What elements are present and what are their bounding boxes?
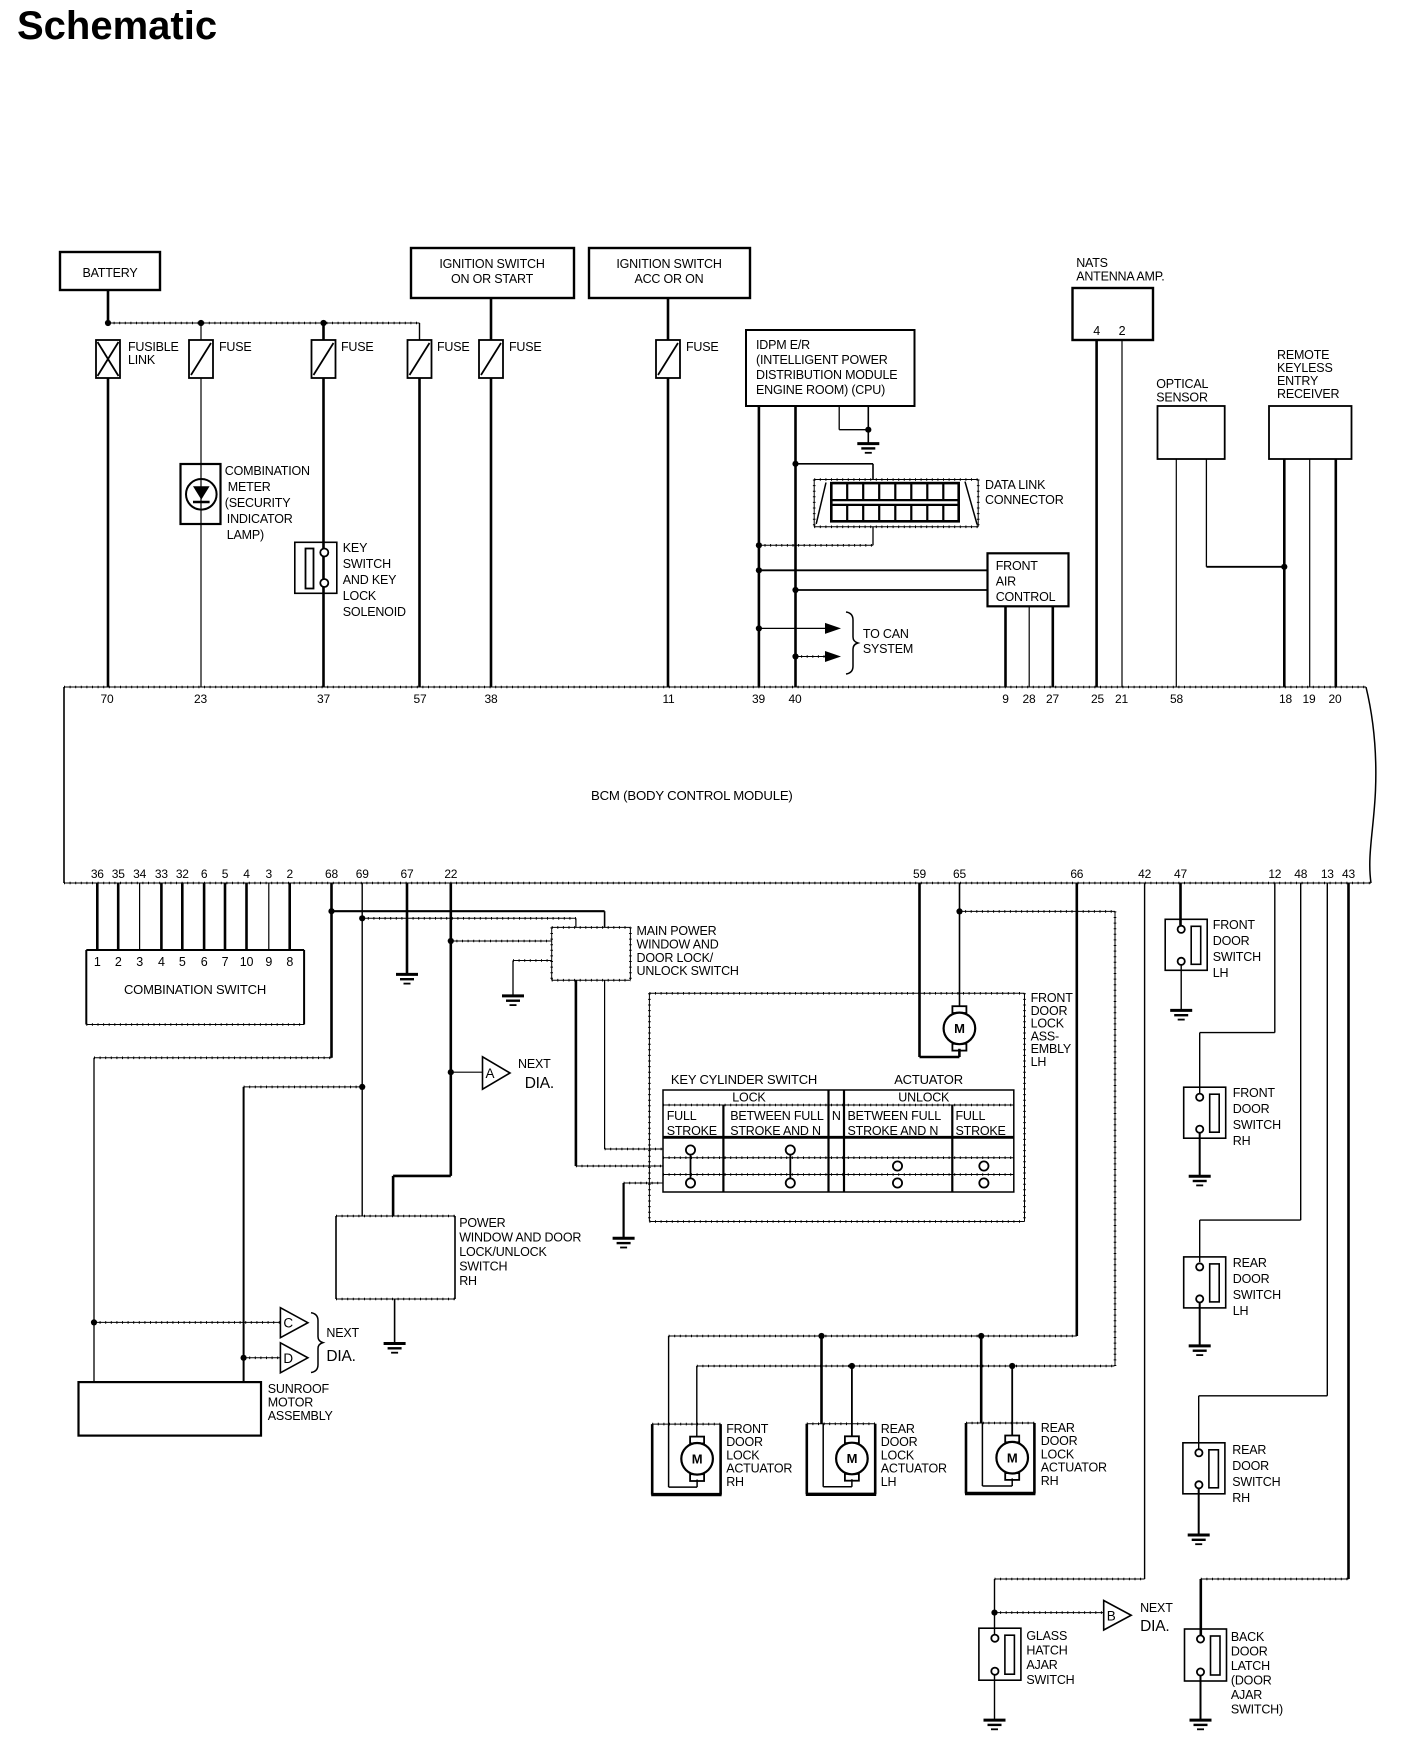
svg-text:STROKE AND N: STROKE AND N: [730, 1124, 821, 1138]
svg-text:DIA.: DIA.: [525, 1075, 554, 1092]
junction triangle C: [91, 1319, 97, 1325]
svg-text:67: 67: [401, 867, 414, 881]
wire F4 to BCM pin 38: [490, 378, 493, 687]
svg-text:43: 43: [1342, 867, 1355, 881]
wire BCM pin 33 to combination switch pin 4: [160, 883, 163, 950]
key cylinder switch table: [663, 1090, 1014, 1192]
svg-text:LATCH: LATCH: [1231, 1659, 1270, 1673]
optical sensor: [1158, 406, 1225, 459]
label BACK DOOR LATCH (DOOR AJAR SWITCH): [1231, 1630, 1283, 1717]
svg-text:AIR: AIR: [996, 575, 1016, 589]
svg-text:C: C: [283, 1316, 293, 1331]
wire BCM pin 6 to combination switch pin 6: [203, 883, 206, 950]
rear door lock actuator LH: [806, 1424, 876, 1495]
wire glass hatch to ground: [994, 1675, 996, 1720]
svg-text:34: 34: [133, 867, 146, 881]
label GLASS HATCH AJAR SWITCH: [1026, 1629, 1074, 1687]
front door lock actuator RH: [651, 1424, 721, 1495]
svg-text:BCM (BODY CONTROL MODULE): BCM (BODY CONTROL MODULE): [591, 788, 793, 803]
wire F5 to BCM pin 11: [667, 378, 670, 687]
junction triangle A: [448, 1069, 454, 1075]
BCM bottom pin 35 label: [112, 867, 125, 881]
wire IDPM to BCM pin 40: [794, 406, 797, 687]
wire optical sensor to BCM pin 58: [1175, 459, 1177, 687]
svg-text:42: 42: [1138, 867, 1151, 881]
svg-text:SWITCH: SWITCH: [1233, 1288, 1281, 1302]
svg-text:REAR: REAR: [1233, 1256, 1267, 1270]
svg-text:FRONT: FRONT: [1213, 918, 1256, 932]
svg-text:LH: LH: [881, 1475, 897, 1489]
junction pin40 front air: [792, 587, 798, 593]
svg-text:SWITCH: SWITCH: [343, 557, 391, 571]
svg-text:SWITCH: SWITCH: [1213, 950, 1261, 964]
svg-text:59: 59: [913, 867, 926, 881]
svg-text:SWITCH): SWITCH): [1231, 1703, 1283, 1717]
svg-text:METER: METER: [228, 480, 271, 494]
fuse F5: [656, 340, 680, 378]
BCM bottom pin 66 label: [1070, 867, 1083, 881]
BCM bottom pin 32 label: [176, 867, 189, 881]
wire BCM pin 4 to combination switch pin 10: [245, 883, 248, 950]
svg-text:KEY CYLINDER SWITCH: KEY CYLINDER SWITCH: [671, 1072, 817, 1087]
svg-text:Schematic: Schematic: [17, 4, 217, 48]
svg-text:IGNITION SWITCH: IGNITION SWITCH: [616, 257, 721, 271]
svg-text:ACTUATOR: ACTUATOR: [1041, 1461, 1107, 1475]
svg-text:KEY: KEY: [343, 541, 368, 555]
svg-text:SWITCH: SWITCH: [1233, 1118, 1281, 1132]
wire IDPM to BCM pin 39: [758, 406, 761, 687]
junction IDPM ground: [865, 427, 871, 433]
wire ignition start to fuse F4: [490, 298, 493, 340]
svg-text:FUSIBLE: FUSIBLE: [128, 340, 179, 354]
wire ignition acc to fuse F5: [667, 298, 670, 340]
BCM bottom pin 68 label: [325, 867, 338, 881]
wire BCM pin 65 to lock motor LH: [959, 883, 961, 1006]
BCM bottom pin 6 label: [201, 867, 208, 881]
svg-text:DOOR: DOOR: [1232, 1459, 1269, 1473]
svg-text:AND KEY: AND KEY: [343, 573, 397, 587]
junction pin 65 branch: [956, 908, 962, 914]
wire rear door switch LH to ground: [1199, 1303, 1201, 1346]
wire NATS 2 to BCM pin 21: [1121, 340, 1123, 687]
junction unlock bus rear LH: [849, 1363, 855, 1369]
svg-text:FUSE: FUSE: [219, 340, 252, 354]
svg-text:35: 35: [112, 867, 125, 881]
svg-text:UNLOCK: UNLOCK: [898, 1091, 950, 1105]
NATS pin 2 label: [1119, 324, 1126, 338]
wire pin 68 elbow to sunroof feed: [94, 1058, 332, 1323]
label ACTUATOR: [894, 1072, 963, 1087]
wire main power switch to key cylinder row B: [576, 980, 663, 1166]
svg-text:68: 68: [325, 867, 338, 881]
label KEY CYLINDER SWITCH: [671, 1072, 817, 1087]
BCM bottom pin 43 label: [1342, 867, 1355, 881]
svg-text:OPTICAL: OPTICAL: [1156, 377, 1208, 391]
wire BCM pin 68 down: [330, 883, 333, 1058]
label NEXT DIA for A: [518, 1057, 554, 1092]
svg-text:SWITCH: SWITCH: [1026, 1673, 1074, 1687]
fusible link FL: [96, 340, 120, 378]
svg-text:69: 69: [356, 867, 369, 881]
label BCM (BODY CONTROL MODULE): [591, 788, 793, 803]
label REAR DOOR LOCK ACTUATOR RH: [1041, 1421, 1107, 1488]
svg-text:21: 21: [1115, 692, 1128, 706]
wire CAN low arrow: [796, 651, 842, 662]
label N: [832, 1109, 841, 1123]
combination switch pin 5 label: [179, 955, 186, 969]
wire BCM pin 13 to rear door switch RH: [1199, 883, 1328, 1449]
svg-text:DOOR: DOOR: [1231, 1645, 1268, 1659]
main power window and door lock/unlock switch: [552, 927, 631, 980]
svg-text:M: M: [954, 1021, 965, 1036]
svg-text:3: 3: [136, 955, 143, 969]
BCM top pin 27 label: [1046, 692, 1059, 706]
wire unlock bus to front actuator motor: [696, 1366, 698, 1436]
svg-text:FUSE: FUSE: [341, 340, 374, 354]
ignition switch ACC OR ON: [589, 248, 750, 298]
front door switch RH: [1184, 1087, 1226, 1138]
svg-text:(DOOR: (DOOR: [1231, 1674, 1272, 1688]
wire front door switch RH to ground: [1199, 1133, 1201, 1176]
BCM top pin 23 label: [194, 692, 207, 706]
BCM top pin 21 label: [1115, 692, 1128, 706]
wire front air to BCM pin 28: [1028, 606, 1030, 687]
combination switch pin 4 label: [158, 955, 165, 969]
NATS pin 4 label: [1093, 324, 1100, 338]
svg-text:DOOR: DOOR: [1041, 1434, 1078, 1448]
wire pin 69 branch to triangle D: [244, 1087, 363, 1358]
svg-text:ANTENNA AMP.: ANTENNA AMP.: [1076, 270, 1164, 284]
wire BCM pin 66 down: [1076, 883, 1079, 1336]
label FRONT DOOR LOCK ACTUATOR RH: [726, 1422, 792, 1489]
contact unlock between row B: [893, 1161, 902, 1170]
wire lock bus to rear actuator RH: [980, 1336, 983, 1423]
label FUSIBLE LINK: [128, 340, 179, 367]
svg-text:DISTRIBUTION MODULE: DISTRIBUTION MODULE: [756, 368, 897, 382]
wire lock contact bridge 2: [789, 1155, 791, 1179]
svg-text:4: 4: [1093, 324, 1100, 338]
label FUSE F2: [341, 340, 374, 354]
svg-text:19: 19: [1303, 692, 1316, 706]
svg-text:7: 7: [222, 955, 229, 969]
BCM top pin 25 label: [1091, 692, 1104, 706]
wire BCM pin 36 to combination switch pin 1: [96, 883, 99, 950]
svg-text:LOCK: LOCK: [343, 589, 377, 603]
label LOCK: [732, 1091, 766, 1105]
svg-text:22: 22: [444, 867, 457, 881]
wire BCM pin 22 down: [393, 883, 451, 1216]
label DATA LINK CONNECTOR: [985, 478, 1064, 507]
wire pin 65 branch to unlock bus: [960, 911, 1116, 1366]
svg-text:SUNROOF: SUNROOF: [268, 1382, 330, 1396]
svg-text:18: 18: [1279, 692, 1292, 706]
svg-text:D: D: [283, 1351, 293, 1366]
rear door lock actuator RH: [965, 1423, 1035, 1494]
ground G1 IDPM: [857, 444, 879, 453]
junction CAN high: [756, 625, 762, 631]
BCM bottom pin 65 label: [953, 867, 966, 881]
svg-text:LOCK: LOCK: [732, 1091, 766, 1105]
svg-text:32: 32: [176, 867, 189, 881]
svg-text:1: 1: [94, 955, 101, 969]
svg-text:4: 4: [243, 867, 250, 881]
wire key cylinder row C to ground: [624, 1183, 663, 1238]
wire NATS 4 to BCM pin 25: [1095, 340, 1098, 687]
front air control module: [988, 553, 1069, 606]
BCM bottom pin 69 label: [356, 867, 369, 881]
wire to triangle A: [451, 1071, 483, 1073]
junction lock bus rear RH: [978, 1333, 984, 1339]
wire BCM pin 34 to combination switch pin 3: [139, 883, 141, 950]
svg-text:12: 12: [1268, 867, 1281, 881]
junction pin 68 branch: [328, 908, 334, 914]
combination switch pin 2 label: [115, 955, 122, 969]
junction battery bus at fusible link: [105, 320, 111, 326]
wire lock bus to front actuator: [668, 1336, 670, 1424]
BCM bottom pin 12 label: [1268, 867, 1281, 881]
svg-text:SOLENOID: SOLENOID: [343, 605, 406, 619]
wire front door switch LH to ground: [1180, 965, 1182, 1010]
wire bus stub F1: [200, 323, 202, 340]
svg-text:BATTERY: BATTERY: [82, 266, 138, 280]
svg-text:10: 10: [240, 955, 254, 969]
svg-text:25: 25: [1091, 692, 1104, 706]
svg-text:NEXT: NEXT: [518, 1057, 551, 1071]
svg-text:M: M: [847, 1451, 858, 1466]
wire BCM pin 69 down: [361, 883, 363, 1216]
svg-text:FRONT: FRONT: [1233, 1086, 1276, 1100]
svg-text:BETWEEN FULL: BETWEEN FULL: [848, 1109, 942, 1123]
ignition switch ON OR START: [411, 248, 574, 298]
label FUSE F3: [437, 340, 470, 354]
wire actuator unlock bus: [697, 1365, 1115, 1367]
junction pin 69 upper: [359, 915, 365, 921]
svg-text:39: 39: [752, 692, 765, 706]
svg-text:MOTOR: MOTOR: [268, 1396, 313, 1410]
wire optical sensor to keyless join: [1206, 459, 1284, 567]
glass hatch ajar switch: [979, 1628, 1021, 1680]
wire keyless to BCM pin 20: [1335, 459, 1338, 687]
label FUSE F5: [686, 340, 719, 354]
label FUSE F1: [219, 340, 252, 354]
junction bus fuse F2: [320, 320, 326, 326]
wire pin 69 to main power window switch: [362, 918, 576, 927]
svg-text:DIA.: DIA.: [326, 1348, 355, 1365]
BCM top pin 11 label: [662, 692, 675, 706]
svg-text:37: 37: [317, 692, 330, 706]
svg-text:BETWEEN FULL: BETWEEN FULL: [730, 1109, 824, 1123]
svg-text:48: 48: [1294, 867, 1307, 881]
svg-text:AJAR: AJAR: [1026, 1658, 1057, 1672]
svg-text:40: 40: [789, 692, 802, 706]
svg-text:3: 3: [266, 867, 273, 881]
brace TO CAN SYSTEM: [846, 612, 858, 674]
power window and door lock/unlock switch RH: [336, 1216, 455, 1299]
label NEXT DIA for B: [1140, 1601, 1173, 1635]
junction pin39 front air: [756, 567, 762, 573]
wire to triangle C: [94, 1321, 280, 1323]
label REAR DOOR LOCK ACTUATOR LH: [881, 1422, 947, 1489]
svg-text:LOCK/UNLOCK: LOCK/UNLOCK: [459, 1245, 547, 1259]
svg-text:11: 11: [662, 692, 675, 706]
contact unlock full-stroke row C: [979, 1178, 988, 1187]
front door lock assembly LH enclosure: [649, 993, 1024, 1221]
svg-text:DOOR: DOOR: [726, 1435, 763, 1449]
svg-text:58: 58: [1170, 692, 1183, 706]
junction lock bus rear LH: [818, 1333, 824, 1339]
label BETWEEN FULL STROKE AND N unlock: [848, 1109, 942, 1138]
BCM top pin 58 label: [1170, 692, 1183, 706]
svg-text:LAMP): LAMP): [227, 528, 264, 542]
BCM bottom pin 42 label: [1138, 867, 1151, 881]
svg-text:IGNITION SWITCH: IGNITION SWITCH: [439, 257, 544, 271]
svg-text:RH: RH: [1232, 1491, 1250, 1505]
svg-text:RH: RH: [726, 1475, 744, 1489]
label TO CAN SYSTEM: [863, 627, 913, 656]
svg-text:ACTUATOR: ACTUATOR: [881, 1462, 947, 1476]
junction optical keyless: [1281, 564, 1287, 570]
BCM top pin 19 label: [1303, 692, 1316, 706]
contact lock full-stroke row A: [686, 1145, 695, 1154]
triangle C next dia: [280, 1308, 308, 1338]
svg-text:REMOTE: REMOTE: [1277, 348, 1329, 362]
rear door switch RH: [1183, 1443, 1225, 1494]
svg-text:REAR: REAR: [881, 1422, 915, 1436]
BCM bottom pin 33 label: [155, 867, 168, 881]
svg-text:FUSE: FUSE: [509, 340, 542, 354]
svg-text:LH: LH: [1031, 1055, 1047, 1069]
svg-text:4: 4: [158, 955, 165, 969]
ground G7 front door switch RH: [1189, 1176, 1211, 1185]
wire junction to sunroof pin2: [243, 1358, 245, 1382]
fuse F3: [408, 340, 432, 378]
BCM bottom pin 59 label: [913, 867, 926, 881]
wire BCM pin 32 to combination switch pin 5: [181, 883, 184, 950]
wire BCM pin 48 to rear door switch LH: [1200, 883, 1301, 1262]
wire pin40 to data link connector: [796, 464, 874, 480]
triangle A next dia: [483, 1057, 511, 1089]
wire pin40 to front air control: [796, 589, 988, 591]
BCM body control module: [64, 687, 1376, 883]
fuse F2: [312, 340, 336, 378]
BCM top pin 18 label: [1279, 692, 1292, 706]
svg-text:RH: RH: [1233, 1134, 1251, 1148]
BCM bottom pin 22 label: [444, 867, 457, 881]
door lock motor M1 LH: [944, 1006, 976, 1050]
contact unlock between row C: [893, 1178, 902, 1187]
label NATS ANTENNA AMP.: [1076, 256, 1164, 284]
wire BCM pin 47 to front door switch LH: [1179, 883, 1182, 925]
data link connector J1: [814, 480, 978, 527]
combination switch pin 1 label: [94, 955, 101, 969]
wire BCM pin 35 to combination switch pin 2: [117, 883, 120, 950]
svg-text:36: 36: [91, 867, 104, 881]
svg-text:(SECURITY: (SECURITY: [225, 496, 291, 510]
svg-text:N: N: [832, 1109, 841, 1123]
wire BCM pin 3 to combination switch pin 9: [268, 883, 270, 950]
battery B1: [60, 252, 160, 290]
combination switch pin 3 label: [136, 955, 143, 969]
wire F2 to BCM pin 37: [322, 378, 325, 687]
svg-text:57: 57: [414, 692, 427, 706]
svg-text:ENTRY: ENTRY: [1277, 374, 1319, 388]
svg-text:AJAR: AJAR: [1231, 1688, 1262, 1702]
svg-text:LOCK: LOCK: [1041, 1447, 1075, 1461]
wire BCM pin 42 to glass hatch switch: [995, 883, 1145, 1635]
svg-text:ASSEMBLY: ASSEMBLY: [268, 1409, 334, 1423]
wire BCM pin 12 to front door switch RH: [1200, 883, 1275, 1093]
wire back door latch to ground: [1200, 1676, 1202, 1720]
svg-text:HATCH: HATCH: [1026, 1644, 1067, 1658]
rear door switch LH: [1184, 1257, 1226, 1308]
NATS antenna amp: [1073, 288, 1154, 340]
svg-text:CONNECTOR: CONNECTOR: [985, 493, 1064, 507]
wire unlock bus to rear actuator LH motor: [851, 1366, 853, 1436]
BCM top pin 70 label: [101, 692, 114, 706]
svg-text:SYSTEM: SYSTEM: [863, 642, 913, 656]
fuse F1: [189, 340, 213, 378]
ground G5 power window RH: [384, 1344, 406, 1353]
wire power window RH to ground: [394, 1299, 396, 1344]
wire lock bus to rear actuator LH: [820, 1336, 823, 1424]
label FRONT DOOR SWITCH RH: [1233, 1086, 1281, 1148]
wire pin39 to front air control: [759, 569, 988, 571]
front door switch LH: [1165, 919, 1207, 970]
combination switch: [86, 950, 304, 1025]
svg-text:20: 20: [1329, 692, 1342, 706]
junction unlock bus rear RH: [1009, 1363, 1015, 1369]
svg-text:M: M: [692, 1451, 703, 1466]
svg-text:IDPM E/R: IDPM E/R: [756, 338, 810, 352]
svg-text:33: 33: [155, 867, 168, 881]
wire junction to sunroof pin1: [93, 1322, 95, 1382]
wire rear door switch RH to ground: [1198, 1489, 1200, 1536]
label FRONT DOOR LOCK ASS- EMBLY LH: [1031, 991, 1074, 1069]
svg-text:9: 9: [265, 955, 272, 969]
wire unlock bus to rear actuator RH motor: [1011, 1366, 1013, 1435]
wire F3 to BCM pin 57: [418, 378, 421, 687]
label COMBINATION METER (SECURITY INDICATOR LAMP): [225, 464, 310, 542]
sunroof motor assembly: [79, 1382, 262, 1436]
svg-text:5: 5: [179, 955, 186, 969]
junction CAN low: [792, 653, 798, 659]
BCM top pin 38 label: [485, 692, 498, 706]
triangle B next dia: [1104, 1601, 1132, 1631]
svg-text:RH: RH: [459, 1274, 477, 1288]
label FRONT DOOR SWITCH LH: [1213, 918, 1261, 980]
triangle D next dia: [280, 1343, 308, 1373]
BCM bottom pin 48 label: [1294, 867, 1307, 881]
svg-text:ENGINE ROOM) (CPU): ENGINE ROOM) (CPU): [756, 383, 885, 397]
svg-text:DATA LINK: DATA LINK: [985, 478, 1046, 492]
svg-text:13: 13: [1321, 867, 1334, 881]
BCM bottom pin 2 label: [286, 867, 293, 881]
wire main power switch ground branch: [513, 961, 552, 996]
label REMOTE KEYLESS ENTRY RECEIVER: [1277, 348, 1339, 401]
wire to triangle D: [244, 1357, 281, 1359]
svg-text:2: 2: [1119, 324, 1126, 338]
svg-text:NEXT: NEXT: [1140, 1601, 1173, 1615]
key switch and key lock solenoid: [295, 542, 337, 593]
label REAR DOOR SWITCH RH: [1232, 1443, 1280, 1505]
svg-text:NEXT: NEXT: [326, 1326, 359, 1340]
svg-text:A: A: [486, 1066, 495, 1081]
svg-text:RH: RH: [1041, 1474, 1059, 1488]
svg-text:KEYLESS: KEYLESS: [1277, 361, 1333, 375]
brace next dia C D: [311, 1313, 323, 1373]
junction DLC return pin39: [756, 542, 762, 548]
svg-text:BACK: BACK: [1231, 1630, 1265, 1644]
